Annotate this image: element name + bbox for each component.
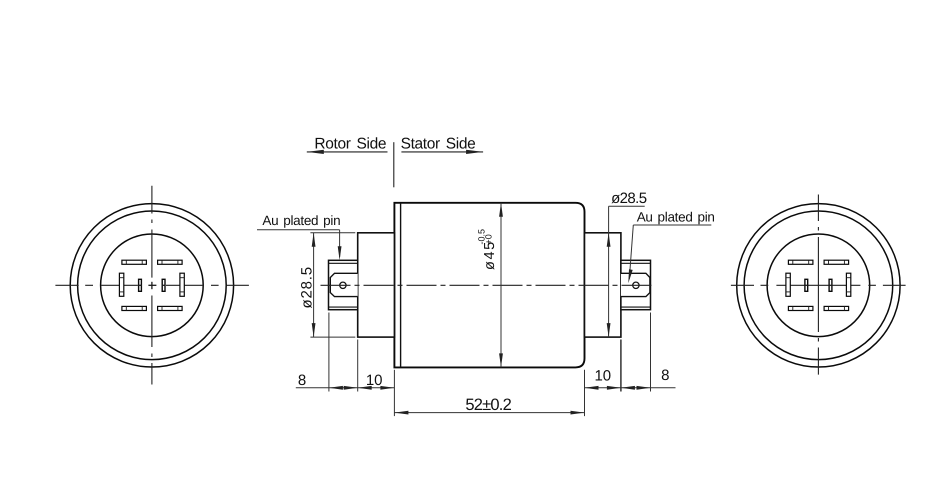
- right flange ø28.5: [585, 233, 621, 337]
- left pin block: [330, 273, 357, 296]
- main centerline: [321, 284, 655, 286]
- left view chamfer circle: [78, 211, 227, 360]
- svg-text:Stator Side: Stator Side: [401, 136, 476, 153]
- left view small center pins: [139, 279, 165, 291]
- dim 8 right line: [621, 387, 676, 389]
- slot top-left: [122, 260, 146, 264]
- right view pin crossing line: [804, 284, 832, 286]
- dim ø45: dimension line: [500, 203, 502, 368]
- left view center cross mark: [148, 282, 156, 289]
- stator side arrow line: [401, 151, 483, 153]
- right view slot end ticks: [786, 260, 851, 310]
- slot top-right: [824, 260, 849, 264]
- dim 52 line: [394, 412, 584, 414]
- divider line: [393, 142, 395, 187]
- svg-text:10: 10: [594, 368, 611, 385]
- dim 8 left arrows: [329, 386, 343, 390]
- dim ø28.5 left: extension lines: [310, 232, 355, 234]
- slot left vertical: [119, 273, 123, 296]
- slot top-left: [788, 260, 813, 264]
- right view horizontal centerline: [731, 284, 906, 286]
- slot bottom-right: [824, 306, 849, 310]
- dim ø28.5 right arrows: [607, 233, 611, 247]
- Au plated pin right: leader: [633, 224, 711, 226]
- svg-text:52±0.2: 52±0.2: [465, 396, 511, 414]
- dim ø28.5 left arrows: [312, 233, 316, 247]
- left view slot end ticks: [119, 260, 184, 310]
- slot right vertical: [846, 273, 850, 296]
- right shaft: [621, 260, 651, 309]
- slot top-right: [158, 260, 183, 264]
- svg-text:ø28.5: ø28.5: [611, 190, 647, 207]
- right view small center pins: [805, 279, 832, 291]
- body inner edge line: [400, 203, 402, 368]
- dim ø28.5 right: label underline: [609, 205, 645, 207]
- slot bottom-right: [158, 306, 183, 310]
- left view vertical centerline: [151, 186, 153, 385]
- dim ø45 arrows: [499, 203, 503, 217]
- right view outer circle ø45: [737, 204, 900, 367]
- slot right vertical: [180, 273, 184, 296]
- dim ø28.5 right: dimension line: [608, 206, 610, 337]
- left shaft: [329, 260, 358, 309]
- dim 10 left arrows: [358, 386, 372, 390]
- svg-text:ø28.5: ø28.5: [299, 266, 316, 308]
- svg-text:8: 8: [661, 367, 669, 384]
- svg-text:-0.5: -0.5: [476, 229, 486, 245]
- svg-text:Rotor Side: Rotor Side: [314, 136, 386, 153]
- svg-text:8: 8: [298, 372, 306, 389]
- dim 8 right arrows: [621, 386, 635, 390]
- dim 10 left line: [358, 387, 395, 389]
- left pin hole: [340, 282, 346, 288]
- leader arrow Au plated pin left: [338, 246, 342, 260]
- left view outer circle ø45: [70, 204, 233, 367]
- slot bottom-left: [788, 306, 813, 310]
- slot bottom-left: [122, 306, 146, 310]
- rotor side arrow line: [307, 151, 388, 153]
- bottom dims: extension lines: [328, 313, 330, 392]
- leader arrow Au plated pin right: [628, 269, 632, 283]
- left view horizontal centerline: [55, 284, 249, 286]
- dim ø28.5 left: dimension line: [313, 233, 315, 337]
- right view vertical centerline: [817, 195, 819, 375]
- right pin hole: [633, 282, 639, 288]
- arrowheads: [312, 203, 651, 415]
- svg-text:Au plated pin: Au plated pin: [262, 213, 340, 228]
- dim 52 arrows: [394, 411, 408, 415]
- right view pin slots: [786, 260, 851, 310]
- dim 10 right line: [585, 387, 621, 389]
- right view chamfer circle: [744, 211, 893, 360]
- right view inner circle ø28.5: [767, 234, 870, 337]
- left view pin slots: [119, 260, 184, 310]
- left view pin crossing line: [138, 284, 166, 286]
- right pin block: [621, 273, 650, 296]
- svg-text:10: 10: [366, 372, 383, 389]
- dim 8 left line: [296, 387, 358, 389]
- dimension texts: [262, 190, 714, 414]
- body ø45 x 52: [394, 203, 584, 368]
- slot left vertical: [786, 273, 790, 296]
- left flange ø28.5: [358, 233, 395, 337]
- svg-text:Au plated pin: Au plated pin: [637, 210, 715, 225]
- dim 10 right arrows: [585, 386, 599, 390]
- Au plated pin left: leader: [257, 229, 340, 231]
- left view inner circle ø28.5: [101, 234, 204, 337]
